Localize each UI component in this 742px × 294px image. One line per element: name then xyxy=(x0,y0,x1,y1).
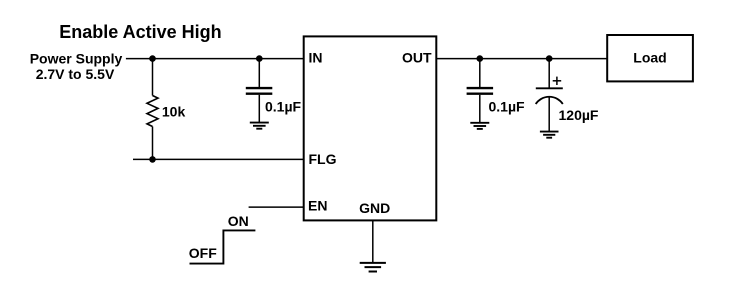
wire: GND pin lead xyxy=(372,220,374,263)
svg-text:0.1µF: 0.1µF xyxy=(489,99,526,115)
ground: below C3 xyxy=(540,132,559,138)
node: junction resistor / FLG wire xyxy=(149,156,156,163)
svg-text:120µF: 120µF xyxy=(559,107,599,123)
capacitor C3 120uF positive plate xyxy=(536,87,563,89)
ground: below C2 xyxy=(470,123,489,129)
svg-text:ON: ON xyxy=(228,213,249,229)
label: Power Supply 2.7V to 5.5V xyxy=(30,50,123,82)
svg-text:0.1µF: 0.1µF xyxy=(265,99,302,115)
capacitor C2 0.1uF plates xyxy=(467,88,494,94)
node: junction at bulk capacitor xyxy=(546,55,553,62)
polarity mark: plus sign xyxy=(553,77,562,85)
wire: C1 bottom lead xyxy=(258,95,260,123)
svg-text:GND: GND xyxy=(359,200,390,216)
wire: C2 bottom lead xyxy=(479,95,481,123)
capacitor C1 0.1uF plates xyxy=(246,88,272,94)
svg-text:IN: IN xyxy=(309,50,323,66)
wire: supply rail to IN pin xyxy=(126,58,304,60)
capacitor C3 120uF curved plate xyxy=(536,97,563,104)
op-amp U1 regulator box xyxy=(304,36,437,220)
svg-text:Load: Load xyxy=(633,50,666,66)
wire: EN stub xyxy=(249,206,304,208)
wire: resistor bottom lead xyxy=(152,127,154,160)
ground: GND pin xyxy=(360,263,386,272)
ground: below C1 xyxy=(250,123,269,129)
wire: FLG net xyxy=(133,158,304,160)
node: junction at input capacitor xyxy=(256,55,263,62)
capacitor C2 output lead xyxy=(479,59,481,87)
svg-text:OFF: OFF xyxy=(189,245,217,261)
resistor R1 10k xyxy=(147,96,158,127)
svg-text:OUT: OUT xyxy=(402,50,432,66)
wire: C3 bottom lead xyxy=(548,97,550,132)
node: junction at resistor top xyxy=(149,55,156,62)
svg-text:Power Supply: Power Supply xyxy=(30,50,123,66)
svg-text:10k: 10k xyxy=(162,104,186,120)
load block xyxy=(607,35,693,81)
svg-text:EN: EN xyxy=(308,198,327,214)
node: junction at output capacitor xyxy=(477,55,484,62)
capacitor C1 input lead xyxy=(258,59,260,87)
wire: resistor top lead xyxy=(152,59,154,96)
svg-text:Enable Active High: Enable Active High xyxy=(59,22,221,42)
capacitor C3 bulk lead xyxy=(548,59,550,89)
svg-text:FLG: FLG xyxy=(309,151,337,167)
waveform annotation: OFF/ON step xyxy=(189,213,256,264)
wire: OUT net to Load xyxy=(436,58,607,60)
svg-text:2.7V to 5.5V: 2.7V to 5.5V xyxy=(36,66,115,82)
